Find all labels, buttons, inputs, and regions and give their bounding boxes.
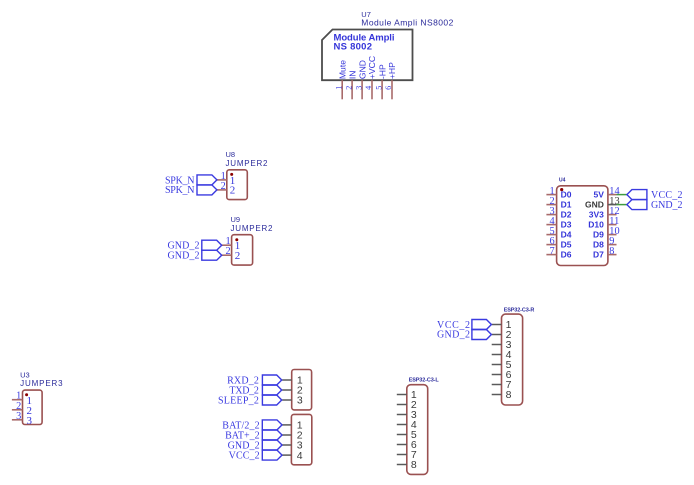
svg-text:8: 8 (411, 459, 417, 471)
U3 pin 1 (12, 391, 23, 402)
svg-text:D10: D10 (588, 220, 604, 230)
svg-text:2: 2 (225, 246, 230, 257)
svg-text:D6: D6 (561, 250, 572, 260)
U4 pin 7 D6 (546, 246, 571, 260)
hierarchical label VCC_2 (ESP32-C3-R pin 1) (437, 320, 491, 331)
hierarchical label GND_2 (U9 pin 2) (168, 250, 222, 261)
U4 pin 10 D9 (593, 226, 620, 240)
connector U8 (JUMPER2) body (227, 170, 248, 200)
connector J-power (4 pin) body (291, 414, 311, 464)
U4 pin 5 D4 (546, 226, 571, 240)
U7 pin 3 GND (354, 60, 367, 99)
connector ESP32-C3-R body (502, 314, 523, 405)
svg-text:2: 2 (221, 181, 226, 192)
hierarchical label VCC_2 (J-power pin 4) (229, 450, 282, 461)
hierarchical label BAT/2_2 (J-power pin 1) (222, 420, 282, 431)
wire U4 pin 14 to VCC_2 (617, 194, 627, 196)
svg-text:D7: D7 (593, 250, 604, 260)
ESP32-C3-L pin 5 (397, 429, 417, 441)
ESP32-C3-L pin 4 (397, 419, 417, 431)
svg-text:Mute: Mute (337, 60, 347, 79)
ESP32-C3-R pin 5 (492, 359, 512, 371)
svg-text:VCC_2: VCC_2 (229, 451, 260, 462)
U4 pin 3 D2 (546, 206, 571, 220)
J-power pin 4 (282, 450, 303, 462)
U7 pin 2 IN (344, 71, 357, 100)
svg-text:GND_2: GND_2 (437, 330, 470, 341)
svg-text:6: 6 (384, 86, 393, 90)
svg-text:1: 1 (334, 86, 343, 90)
hierarchical label TXD_2 (J-serial pin 2) (229, 385, 281, 396)
hierarchical label SLEEP_2 (J-serial pin 3) (218, 395, 282, 406)
svg-text:GND: GND (585, 200, 604, 210)
svg-text:JUMPER2: JUMPER2 (226, 159, 269, 168)
svg-text:2: 2 (230, 185, 236, 197)
svg-text:3: 3 (16, 411, 21, 422)
connector U3 (JUMPER3) body (23, 390, 43, 427)
ESP32-C3-R pin 7 (492, 379, 512, 391)
U4 pin 4 D3 (546, 216, 571, 230)
svg-text:2: 2 (344, 86, 353, 90)
svg-text:+VCC: +VCC (367, 56, 377, 79)
svg-text:3: 3 (354, 86, 363, 90)
ESP32-C3-R pin 1 (492, 319, 512, 331)
svg-text:Module Ampli NS8002: Module Ampli NS8002 (361, 18, 453, 28)
hierarchical label GND_2 (U4 pin 13) (627, 200, 683, 211)
svg-text:D5: D5 (561, 240, 572, 250)
svg-text:+HP: +HP (387, 62, 397, 79)
svg-text:JUMPER2: JUMPER2 (231, 224, 274, 233)
svg-text:D3: D3 (561, 220, 572, 230)
J-serial pin 3 (282, 395, 303, 407)
svg-text:2: 2 (235, 250, 241, 262)
svg-text:GND_2: GND_2 (168, 251, 200, 262)
U8 pin 2 (217, 181, 227, 192)
module U7 (Module Ampli NS8002) body (322, 30, 413, 81)
ESP32-C3-R pin 6 (492, 369, 512, 381)
svg-text:IN: IN (347, 71, 357, 80)
J-serial pin 2 (282, 385, 303, 397)
ESP32-C3-R pin 3 (492, 339, 512, 351)
connector J-serial (3 pin) body (292, 370, 312, 410)
svg-text:D9: D9 (593, 230, 604, 240)
connector ESP32-C3-L body (407, 385, 428, 475)
U4 pin 12 3V3 (589, 206, 620, 220)
svg-text:GND_2: GND_2 (651, 200, 683, 211)
svg-text:5: 5 (374, 86, 383, 90)
hierarchical label VCC_2 (U4 pin 14) (627, 190, 683, 201)
svg-text:7: 7 (549, 246, 554, 257)
hierarchical label SPK_N (U8 pin 2) (165, 185, 217, 196)
svg-text:NS 8002: NS 8002 (334, 41, 373, 52)
U9 pin 2 (222, 246, 232, 257)
ESP32-C3-L pin 1 (397, 389, 417, 401)
svg-text:U8: U8 (226, 150, 236, 159)
ESP32-C3-L pin 7 (397, 449, 417, 461)
svg-text:4: 4 (364, 86, 373, 90)
U4 pin 9 D8 (593, 236, 616, 250)
IC U4 body (557, 186, 608, 266)
hierarchical label BAT+_2 (J-power pin 2) (225, 430, 282, 441)
ESP32-C3-R pin 2 (492, 329, 512, 341)
ESP32-C3-R pin 4 (492, 349, 512, 361)
wire U4 pin 13 to GND_2 (617, 204, 627, 206)
svg-text:-HP: -HP (377, 64, 387, 79)
svg-text:3V3: 3V3 (589, 210, 604, 220)
hierarchical label RXD_2 (J-serial pin 1) (227, 375, 282, 386)
svg-text:D2: D2 (561, 210, 572, 220)
svg-text:ESP32-C3-L: ESP32-C3-L (409, 378, 440, 384)
svg-text:5V: 5V (593, 190, 604, 200)
svg-text:D1: D1 (561, 200, 572, 210)
svg-text:U9: U9 (231, 215, 241, 224)
ESP32-C3-L pin 3 (397, 409, 417, 421)
U3 pin 3 (12, 411, 23, 422)
svg-text:D0: D0 (561, 190, 572, 200)
U4 pin 2 D1 (546, 196, 571, 210)
J-power pin 3 (282, 440, 303, 452)
U4 pin 11 D10 (588, 216, 619, 230)
J-power pin 1 (282, 420, 303, 432)
svg-text:ESP32-C3-R: ESP32-C3-R (504, 308, 535, 314)
U8 pin 1 (217, 171, 227, 182)
svg-text:U4: U4 (559, 177, 566, 183)
U4 pin 8 D7 (593, 246, 616, 260)
U3 pin 2 (12, 401, 23, 412)
svg-text:8: 8 (609, 246, 614, 257)
ESP32-C3-L pin 8 (397, 459, 417, 471)
hierarchical label GND_2 (ESP32-C3-R pin 2) (437, 330, 491, 341)
hierarchical label GND_2 (U9 pin 1) (168, 240, 222, 251)
svg-text:D4: D4 (561, 230, 572, 240)
U7 pin 4 +VCC (364, 56, 377, 99)
U7 pin 5 -HP (374, 64, 387, 99)
ESP32-C3-L pin 6 (397, 439, 417, 451)
U9 pin 1 (222, 236, 232, 247)
U7 pin 1 Mute (334, 60, 347, 100)
svg-text:3: 3 (27, 415, 33, 427)
svg-text:D8: D8 (593, 240, 604, 250)
connector U9 (JUMPER2) body (232, 235, 253, 265)
ESP32-C3-R pin 8 (492, 389, 512, 401)
U7 pin 6 +HP (384, 62, 397, 99)
svg-text:GND: GND (357, 60, 367, 79)
J-power pin 2 (282, 430, 303, 442)
ESP32-C3-L pin 2 (397, 399, 417, 411)
U4 pin 13 GND (585, 196, 620, 210)
U4 pin 1 D0 (546, 186, 571, 200)
hierarchical label SPK_N (U8 pin 1) (165, 175, 217, 186)
svg-text:SPK_N: SPK_N (165, 185, 195, 196)
hierarchical label GND_2 (J-power pin 3) (228, 440, 282, 451)
svg-text:SLEEP_2: SLEEP_2 (218, 395, 259, 406)
U4 pin 14 5V (593, 186, 619, 200)
svg-text:8: 8 (506, 389, 512, 401)
J-serial pin 1 (282, 375, 303, 387)
U4 pin 6 D5 (546, 236, 571, 250)
svg-text:3: 3 (297, 395, 303, 407)
svg-text:4: 4 (297, 450, 303, 462)
svg-text:JUMPER3: JUMPER3 (20, 379, 63, 388)
